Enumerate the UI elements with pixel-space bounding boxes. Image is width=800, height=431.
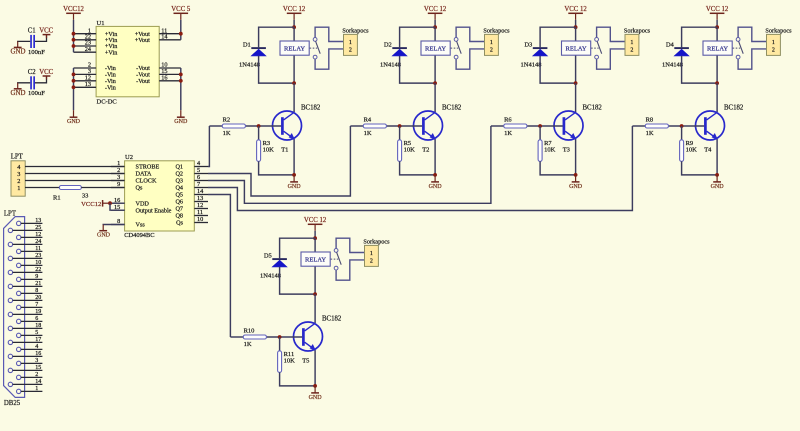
- svg-text:Q7: Q7: [175, 206, 183, 213]
- ground GND unit 5: [309, 386, 323, 401]
- svg-text:R1: R1: [53, 194, 61, 201]
- svg-text:33: 33: [82, 192, 89, 199]
- junction U1 pin11 node: [179, 32, 183, 36]
- wire Vss to ground: [103, 224, 124, 226]
- svg-text:Output Enable: Output Enable: [136, 207, 172, 214]
- svg-text:9: 9: [35, 274, 38, 280]
- svg-text:BC182: BC182: [583, 104, 603, 111]
- wire base network unit 4: [632, 125, 704, 127]
- svg-text:2: 2: [370, 258, 373, 264]
- U1 pin 3 -Vin: [74, 68, 116, 79]
- junction emitter node unit 3: [574, 173, 578, 177]
- U1 pin 12 -Vin: [74, 74, 116, 85]
- svg-text:Q2: Q2: [175, 171, 183, 178]
- U2 pin 15 Output Enable: [111, 204, 172, 215]
- power VCC12 rail at U1: [63, 6, 84, 20]
- DB25 pin 13: [17, 218, 43, 225]
- svg-text:1: 1: [630, 40, 633, 46]
- svg-text:RELAY: RELAY: [284, 46, 305, 53]
- ground GND right of U1: [174, 110, 188, 125]
- svg-text:C2: C2: [28, 69, 37, 76]
- svg-text:10K: 10K: [404, 147, 416, 154]
- svg-text:1: 1: [349, 40, 352, 46]
- connector Sorkapocs unit 2: [483, 28, 510, 56]
- svg-text:12: 12: [35, 232, 41, 238]
- transistor T3 BC182: [554, 104, 602, 153]
- ground GND unit 3: [569, 175, 583, 190]
- svg-text:+Vin: +Vin: [105, 49, 117, 56]
- svg-text:VCC 5: VCC 5: [171, 6, 191, 13]
- svg-text:5: 5: [35, 330, 38, 336]
- junction base node unit 4: [680, 124, 684, 128]
- svg-text:6: 6: [35, 316, 38, 322]
- svg-text:T4: T4: [704, 147, 712, 154]
- svg-text:13: 13: [85, 81, 91, 88]
- DB25 pin 3: [17, 358, 43, 365]
- DB25 pin 17: [8, 337, 42, 344]
- svg-text:100nF: 100nF: [28, 49, 45, 56]
- resistor R6 1K: [504, 116, 527, 136]
- svg-text:D3: D3: [524, 41, 532, 48]
- svg-text:2: 2: [117, 167, 120, 174]
- wire Q4 to R8 (unit 4): [208, 126, 632, 211]
- U2 pin 11 Q8: [175, 209, 208, 220]
- connector Sorkapocs unit 3: [624, 28, 651, 56]
- svg-text:1N4148: 1N4148: [521, 62, 542, 69]
- wire pulldown top unit 3: [539, 126, 541, 140]
- svg-text:1K: 1K: [504, 130, 512, 137]
- transistor T4 BC182: [696, 104, 744, 153]
- svg-text:RELAY: RELAY: [425, 46, 446, 53]
- svg-text:VCC12: VCC12: [81, 201, 101, 208]
- svg-text:2: 2: [630, 47, 633, 53]
- relay actuator dashed link unit 3: [591, 47, 599, 49]
- junction U1 pin3 node: [72, 73, 76, 77]
- svg-text:VCC 12: VCC 12: [424, 6, 447, 13]
- svg-text:11: 11: [197, 209, 203, 216]
- svg-text:GND: GND: [429, 184, 443, 190]
- wire diode D2 anode to relay bottom node: [400, 56, 436, 83]
- junction relay top node unit 2: [433, 25, 437, 29]
- wire VCC to relay/diode node unit 5: [314, 231, 316, 238]
- junction emitter node unit 1: [292, 173, 296, 177]
- wire pulldown top unit 2: [399, 126, 401, 140]
- U1 pin 24 +Vin: [74, 46, 118, 57]
- U1 pin 15 -Vout: [136, 68, 181, 79]
- wire relay to transistor T3 collector: [575, 83, 577, 112]
- svg-text:GND: GND: [11, 48, 26, 55]
- wire pulldown to emitter node unit 5: [280, 372, 316, 386]
- svg-text:3: 3: [35, 358, 38, 364]
- relay K2 coil box: [421, 41, 450, 55]
- svg-text:10K: 10K: [686, 147, 698, 154]
- junction VDD node: [108, 201, 112, 205]
- U2 pin 1 STROBE: [111, 160, 159, 171]
- svg-text:BC182: BC182: [442, 104, 462, 111]
- junction base node unit 3: [538, 124, 542, 128]
- svg-text:BC182: BC182: [724, 104, 744, 111]
- svg-text:1: 1: [772, 40, 775, 46]
- op-amp U2 CD4094BC body: [124, 154, 194, 239]
- wire emitter unit 1: [293, 139, 295, 175]
- junction emitter node unit 5: [313, 384, 317, 388]
- resistor R11 10K: [278, 351, 296, 373]
- junction relay bottom node unit 5: [313, 292, 317, 296]
- wire pulldown top unit 5: [279, 337, 281, 351]
- junction relay bottom node unit 1: [292, 81, 296, 85]
- svg-text:Sorkapocs: Sorkapocs: [342, 28, 369, 35]
- svg-text:9: 9: [117, 181, 120, 188]
- wire base network unit 2: [350, 125, 422, 127]
- wire base network unit 1: [209, 125, 281, 127]
- relay actuator dashed link unit 1: [310, 47, 318, 49]
- wire VDD to Output Enable: [110, 203, 125, 210]
- ground GND unit 4: [711, 175, 725, 190]
- wire relay to transistor T5 collector: [314, 294, 316, 323]
- svg-text:LPT: LPT: [11, 153, 24, 160]
- wire relay coil unit 1: [293, 27, 295, 83]
- switch contacts unit 4: [736, 27, 766, 69]
- svg-text:5: 5: [197, 167, 200, 174]
- U2 pin 16 VDD: [111, 197, 149, 208]
- U1 pin 14 +Vout: [135, 33, 181, 44]
- junction U1 pin1 node: [72, 32, 76, 36]
- wire base network unit 5: [230, 336, 302, 338]
- capacitor C1 100nF: [28, 28, 45, 56]
- ground GND unit 2: [429, 175, 443, 190]
- svg-text:14: 14: [35, 379, 41, 385]
- svg-text:DC-DC: DC-DC: [97, 98, 117, 105]
- junction U1 pin13 node: [72, 85, 76, 89]
- relay K4 coil box: [703, 41, 732, 55]
- svg-text:D1: D1: [243, 41, 251, 48]
- svg-text:20: 20: [35, 295, 41, 301]
- connector Sorkapocs unit 5: [363, 239, 390, 267]
- svg-text:C1: C1: [28, 28, 36, 35]
- svg-text:U1: U1: [97, 20, 105, 27]
- wire C1 right: [35, 35, 47, 41]
- junction emitter node unit 4: [715, 173, 719, 177]
- svg-text:100uF: 100uF: [28, 90, 45, 97]
- wire relay coil unit 3: [575, 27, 577, 83]
- junction U1 pin23 node: [72, 44, 76, 48]
- power VCC 12 rail unit 5: [304, 217, 327, 231]
- svg-text:Qs: Qs: [176, 220, 183, 227]
- wire emitter unit 5: [314, 350, 316, 386]
- svg-text:BC182: BC182: [322, 315, 342, 322]
- power VCC 12 rail unit 4: [706, 6, 729, 20]
- svg-text:Sorkapocs: Sorkapocs: [483, 28, 510, 35]
- wire VCC to relay/diode node unit 4: [716, 20, 718, 27]
- svg-text:R8: R8: [646, 116, 654, 123]
- connector LPT (4-pin): [11, 153, 26, 196]
- svg-text:17: 17: [35, 337, 41, 343]
- svg-text:2: 2: [772, 47, 775, 53]
- wire pulldown top unit 4: [681, 126, 683, 140]
- wire relay to transistor T1 collector: [293, 83, 295, 112]
- svg-text:D2: D2: [384, 41, 392, 48]
- svg-text:1: 1: [490, 40, 493, 46]
- svg-text:1K: 1K: [646, 130, 654, 137]
- svg-text:10: 10: [35, 260, 41, 266]
- wire U1 -Vout bus: [180, 68, 182, 110]
- junction relay top node unit 1: [292, 25, 296, 29]
- transistor T1 BC182: [273, 104, 321, 153]
- svg-text:GND: GND: [67, 119, 81, 125]
- wire pulldown to emitter node unit 1: [259, 161, 295, 175]
- ground GND left of U1: [67, 110, 81, 125]
- relay actuator dashed link unit 2: [451, 47, 459, 49]
- wire Q2 to R4 (unit 2): [208, 126, 350, 196]
- resistor R2 1K: [222, 116, 245, 136]
- U2 pin 8 Vss: [111, 218, 145, 229]
- svg-text:19: 19: [35, 309, 41, 315]
- svg-text:VCC 12: VCC 12: [706, 6, 729, 13]
- svg-text:Sorkapocs: Sorkapocs: [765, 28, 792, 35]
- svg-text:1K: 1K: [244, 341, 252, 348]
- svg-text:1N4148: 1N4148: [239, 62, 260, 69]
- svg-text:Q3: Q3: [175, 178, 183, 185]
- wire emitter unit 2: [434, 139, 436, 175]
- diode D2 1N4148: [380, 41, 407, 68]
- svg-text:Q5: Q5: [175, 192, 183, 199]
- diode D3 1N4148: [521, 41, 548, 68]
- svg-text:3: 3: [117, 174, 120, 181]
- connector DB25 parallel port: [4, 210, 25, 407]
- svg-text:-Vout: -Vout: [136, 78, 150, 85]
- op-amp U1 DC-DC converter body: [96, 20, 159, 106]
- connector Sorkapocs unit 4: [765, 28, 792, 56]
- wire R1 to U2 Qs input: [81, 187, 124, 189]
- wire to diode D3 cathode: [540, 27, 576, 47]
- wire diode D4 anode to relay bottom node: [682, 56, 718, 83]
- svg-text:10: 10: [197, 216, 203, 223]
- junction U1 pin16 node: [179, 79, 183, 83]
- svg-text:CLOCK: CLOCK: [136, 178, 158, 185]
- svg-text:VCC12: VCC12: [63, 6, 84, 13]
- U1 pin 2 -Vin: [74, 62, 116, 73]
- resistor R3 10K: [257, 140, 275, 162]
- svg-text:7: 7: [197, 181, 200, 188]
- DB25 pin 9: [17, 274, 43, 281]
- wire VCC to relay/diode node unit 2: [434, 20, 436, 27]
- svg-text:23: 23: [35, 253, 41, 259]
- junction emitter node unit 2: [433, 173, 437, 177]
- svg-text:+Vout: +Vout: [135, 37, 150, 44]
- wire VCC to relay/diode node unit 1: [293, 20, 295, 27]
- wire pulldown to emitter node unit 2: [400, 161, 436, 175]
- resistor R5 10K: [398, 140, 416, 162]
- wire relay to transistor T2 collector: [434, 83, 436, 112]
- junction relay top node unit 4: [715, 25, 719, 29]
- wire relay coil unit 5: [314, 238, 316, 294]
- svg-text:4: 4: [35, 344, 38, 350]
- junction U1 pin15 node: [179, 73, 183, 77]
- U2 pin 7 Q4: [175, 181, 208, 192]
- DB25 pin 5: [17, 330, 43, 337]
- svg-text:RELAY: RELAY: [305, 257, 326, 264]
- svg-text:CD4094BC: CD4094BC: [124, 232, 154, 239]
- switch contacts unit 2: [454, 27, 484, 69]
- svg-text:15: 15: [35, 365, 41, 371]
- DB25 pin 1: [17, 386, 43, 393]
- power VCC at C2: [39, 69, 53, 79]
- svg-text:11: 11: [35, 246, 41, 252]
- wire diode D3 anode to relay bottom node: [540, 56, 576, 83]
- wire Q3 to R6 (unit 3): [208, 126, 491, 203]
- relay K1 coil box: [280, 41, 309, 55]
- diode D1 1N4148: [239, 41, 266, 68]
- wire emitter unit 4: [716, 139, 718, 175]
- svg-text:10K: 10K: [263, 147, 275, 154]
- diode D5 1N4148: [260, 252, 287, 279]
- svg-text:D4: D4: [666, 41, 675, 48]
- svg-text:R4: R4: [364, 116, 372, 123]
- svg-text:GND: GND: [569, 184, 583, 190]
- svg-text:24: 24: [35, 239, 41, 245]
- power VCC 12 rail unit 2: [424, 6, 447, 20]
- wire base network unit 3: [491, 125, 563, 127]
- DB25 pin 7: [17, 302, 43, 309]
- U2 pin 4 Q1: [175, 160, 208, 171]
- U2 pin 9 Qs: [111, 181, 143, 192]
- svg-text:1N4148: 1N4148: [260, 273, 281, 280]
- DB25 pin 25: [8, 225, 42, 232]
- svg-text:16: 16: [161, 74, 167, 81]
- junction relay bottom node unit 3: [574, 81, 578, 85]
- svg-text:18: 18: [35, 323, 41, 329]
- svg-text:GND: GND: [11, 90, 26, 97]
- junction U1 pin22 node: [72, 38, 76, 42]
- U2 pin 14 Q5: [175, 188, 208, 199]
- svg-text:STROBE: STROBE: [136, 164, 160, 171]
- DB25 pin 14: [8, 379, 42, 386]
- DB25 pin 19: [8, 309, 42, 316]
- svg-text:Vss: Vss: [136, 222, 146, 229]
- resistor R1 33: [53, 186, 88, 202]
- transistor T5 BC182: [294, 315, 342, 364]
- junction relay bottom node unit 2: [433, 81, 437, 85]
- svg-text:GND: GND: [97, 233, 111, 239]
- svg-text:DB25: DB25: [4, 400, 21, 407]
- svg-text:Q6: Q6: [175, 199, 183, 206]
- resistor R9 10K: [680, 140, 698, 162]
- junction relay top node unit 5: [313, 236, 317, 240]
- svg-text:14: 14: [161, 33, 168, 40]
- DB25 pin 11: [17, 246, 43, 253]
- U2 pin 6 Q3: [175, 174, 208, 185]
- svg-text:-Vin: -Vin: [105, 85, 116, 92]
- U1 pin 22 +Vin: [74, 33, 118, 44]
- wire diode D1 anode to relay bottom node: [259, 56, 295, 83]
- svg-text:VCC: VCC: [39, 28, 53, 35]
- resistor R4 1K: [363, 116, 386, 136]
- power VCC 5 rail at U1: [171, 6, 191, 20]
- svg-text:3: 3: [17, 171, 20, 178]
- U1 pin 10 -Vout: [136, 62, 181, 73]
- svg-text:7: 7: [35, 302, 38, 308]
- svg-text:10K: 10K: [284, 358, 296, 365]
- svg-text:6: 6: [197, 174, 200, 181]
- wire LPT pin3 to U2 DATA: [25, 173, 125, 175]
- svg-text:Sorkapocs: Sorkapocs: [624, 28, 651, 35]
- DB25 pin 6: [17, 316, 43, 323]
- wire relay to transistor T4 collector: [716, 83, 718, 112]
- resistor R7 10K: [538, 140, 556, 162]
- DB25 pin 18: [8, 323, 42, 330]
- wire emitter unit 3: [575, 139, 577, 175]
- resistor R10 1K: [243, 327, 266, 348]
- transistor T2 BC182: [414, 104, 462, 153]
- svg-text:GND: GND: [309, 395, 323, 401]
- svg-text:R6: R6: [504, 116, 512, 123]
- junction relay top node unit 3: [574, 25, 578, 29]
- wire VCC12 bus to U1 +Vin pins: [73, 20, 75, 52]
- svg-text:8: 8: [35, 288, 38, 294]
- wire LPT pin1 to R1: [25, 187, 59, 189]
- U1 pin 1 +Vin: [74, 27, 118, 38]
- U2 pin 10 Qs: [176, 216, 208, 227]
- svg-text:BC182: BC182: [301, 104, 321, 111]
- svg-text:VCC 12: VCC 12: [564, 6, 587, 13]
- DB25 pin 23: [8, 253, 42, 260]
- svg-text:13: 13: [197, 195, 203, 202]
- relay actuator dashed link unit 4: [733, 47, 741, 49]
- svg-text:GND: GND: [174, 119, 188, 125]
- wire pulldown to emitter node unit 4: [682, 161, 718, 175]
- svg-text:10K: 10K: [544, 147, 556, 154]
- svg-text:14: 14: [197, 188, 204, 195]
- svg-text:2: 2: [490, 47, 493, 53]
- DB25 pin 2: [17, 372, 43, 379]
- svg-text:R2: R2: [223, 116, 231, 123]
- DB25 pin 22: [8, 267, 42, 274]
- U2 pin 13 Q6: [175, 195, 208, 206]
- U2 pin 5 Q2: [175, 167, 208, 178]
- svg-text:25: 25: [35, 225, 41, 231]
- junction relay bottom node unit 4: [715, 81, 719, 85]
- svg-text:Q4: Q4: [175, 185, 183, 192]
- U1 pin 11 +Vout: [135, 27, 181, 38]
- wire C1 left: [18, 40, 31, 43]
- svg-text:D5: D5: [264, 252, 272, 259]
- wire to diode D5 cathode: [280, 238, 316, 258]
- svg-text:VCC 12: VCC 12: [304, 217, 327, 224]
- svg-text:RELAY: RELAY: [566, 46, 587, 53]
- wire to diode D2 cathode: [400, 27, 436, 47]
- svg-text:22: 22: [35, 267, 41, 273]
- wire VCC5 bus to U1 +Vout pins: [180, 20, 182, 40]
- wire to diode D4 cathode: [682, 27, 718, 47]
- wire to diode D1 cathode: [259, 27, 295, 47]
- wire LPT pin4 to U2 STROBE: [25, 166, 125, 168]
- relay K3 coil box: [562, 41, 591, 55]
- svg-text:1N4148: 1N4148: [662, 62, 683, 69]
- wire C2 left: [18, 82, 31, 85]
- svg-text:VCC: VCC: [39, 69, 53, 76]
- DB25 pin 4: [17, 344, 43, 351]
- svg-text:1: 1: [35, 386, 38, 392]
- DB25 pin 24: [8, 239, 42, 246]
- wire pulldown top unit 1: [258, 126, 260, 140]
- svg-text:Sorkapocs: Sorkapocs: [363, 239, 390, 246]
- ground GND unit 1: [288, 175, 302, 190]
- power VCC12 at U2: [81, 200, 110, 208]
- U1 pin 13 -Vin: [74, 81, 116, 92]
- wire diode D5 anode to relay bottom node: [280, 267, 316, 294]
- U1 pin 23 +Vin: [74, 40, 118, 51]
- svg-text:21: 21: [35, 281, 41, 287]
